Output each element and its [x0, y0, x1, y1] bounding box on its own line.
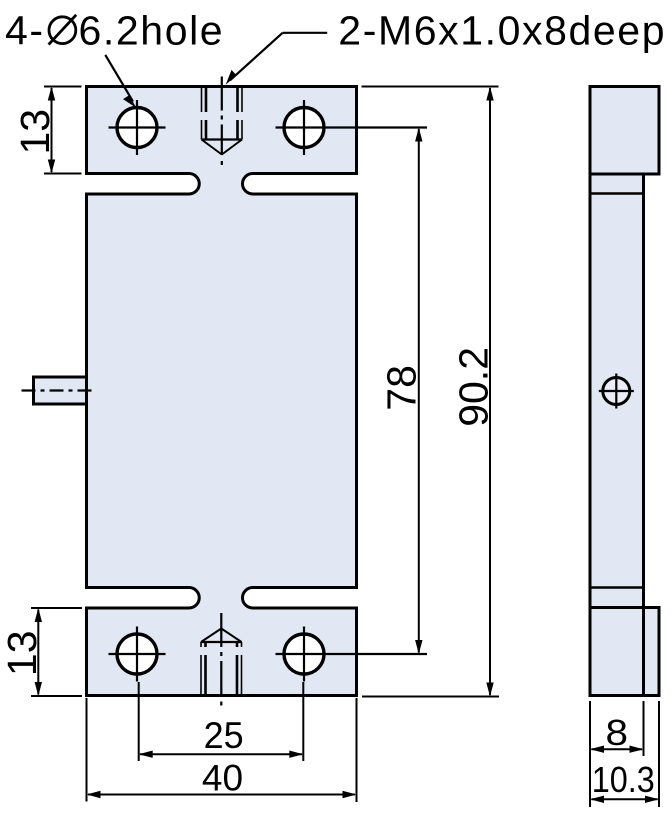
dimension 8: [590, 701, 644, 807]
svg-text:6.2hole: 6.2hole: [79, 7, 225, 53]
side hole: [599, 374, 634, 409]
dimension 40 bottom: [87, 698, 357, 802]
dimension 10.3: [590, 701, 659, 807]
side view silhouette: [590, 87, 659, 696]
svg-text:13: 13: [0, 630, 45, 676]
svg-text:10.3: 10.3: [592, 759, 655, 800]
dimension 78 right: [378, 128, 424, 655]
front view plate with slots: [87, 87, 357, 696]
tapped hole M6 bottom: [201, 613, 242, 706]
pin centerline: [22, 389, 95, 391]
side view step lines: [590, 173, 659, 176]
pin boss left middle: [34, 377, 87, 404]
leader arrow for 4-dia6.2hole: [105, 55, 136, 108]
svg-text:40: 40: [202, 757, 243, 799]
hole bottom-right: [276, 627, 428, 682]
dimension 13 top-left: [12, 87, 82, 174]
svg-text:13: 13: [12, 109, 58, 155]
hole top-left: [109, 100, 166, 155]
svg-text:25: 25: [204, 714, 244, 756]
dimension 25 bottom: [139, 682, 304, 761]
hole bottom-left: [109, 627, 166, 682]
svg-text:2-M6x1.0x8deep: 2-M6x1.0x8deep: [338, 7, 666, 53]
label 4-dia6.2hole: [5, 7, 224, 53]
dimension 13 bottom-left: [0, 608, 82, 696]
leader arrow for 2-M6: [226, 33, 328, 85]
svg-text:8: 8: [606, 712, 629, 753]
svg-text:4-: 4-: [5, 7, 45, 53]
tapped hole M6 top: [202, 77, 243, 166]
svg-text:78: 78: [378, 365, 424, 411]
hole top-right: [276, 100, 428, 155]
dimension 90.2 far right: [362, 87, 500, 697]
svg-text:90.2: 90.2: [451, 347, 497, 427]
